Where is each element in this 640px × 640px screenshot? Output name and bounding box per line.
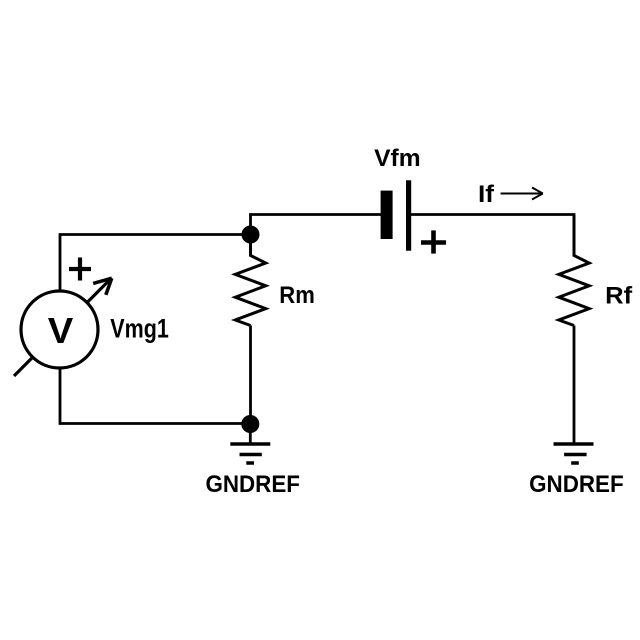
battery Vfm (381, 180, 446, 253)
resistor Rm (235, 243, 265, 326)
ground GNDREF right (554, 444, 594, 463)
wire from voltmeter bottom to bottom node (60, 368, 250, 424)
wire from node A up and right to battery negative plate (251, 215, 382, 257)
current arrow If (501, 188, 543, 200)
svg-text:V: V (48, 310, 74, 351)
svg-text:GNDREF: GNDREF (205, 471, 300, 498)
svg-text:Rm: Rm (279, 282, 315, 309)
node bottom junction (241, 415, 259, 433)
wire from voltmeter top to node A (60, 235, 250, 292)
wire from battery positive to right corner down to Rf (411, 215, 574, 257)
wire from Rf bottom to right ground (573, 326, 576, 445)
wire from Rm bottom to bottom node (249, 326, 252, 425)
wire from bottom node to left ground (249, 424, 252, 444)
voltmeter Vmg1 (14, 258, 112, 377)
svg-text:Vfm: Vfm (374, 145, 421, 172)
node A top junction (242, 226, 260, 244)
svg-text:Rf: Rf (605, 282, 633, 309)
svg-text:If: If (478, 181, 495, 208)
svg-text:Vmg1: Vmg1 (110, 314, 169, 344)
svg-text:GNDREF: GNDREF (529, 471, 624, 498)
resistor Rf (559, 215, 589, 326)
ground GNDREF left (230, 444, 270, 463)
